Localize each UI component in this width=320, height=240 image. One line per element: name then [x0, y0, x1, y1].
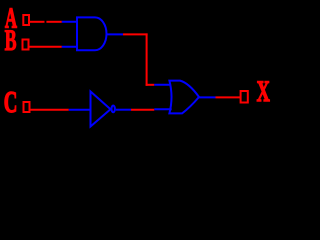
input pin A	[23, 15, 29, 25]
inverter to OR red wire	[131, 109, 154, 111]
inverter U2 triangle	[91, 92, 111, 127]
OR top input blue stub	[154, 84, 171, 86]
AND gate U1	[77, 17, 106, 50]
svg-text:B: B	[5, 25, 17, 58]
wire B blue segment	[62, 46, 78, 48]
wire A blue segment	[62, 21, 78, 23]
OR output blue stub	[199, 96, 216, 98]
OR gate U3	[169, 81, 199, 114]
wire A red segment	[30, 21, 45, 23]
inverter output blue stub	[116, 109, 131, 111]
AND-OR red wire lower horizontal	[146, 84, 155, 86]
input pin C	[24, 102, 30, 112]
output pin X	[241, 91, 248, 103]
AND output red wire horizontal	[123, 33, 148, 35]
wire B red segment	[30, 46, 62, 48]
svg-text:X: X	[257, 76, 270, 108]
wire A red segment after gap	[46, 21, 61, 23]
OR bottom input blue stub	[154, 108, 171, 110]
svg-text:C: C	[4, 86, 18, 120]
AND output blue stub	[107, 33, 124, 35]
OR output red wire to X	[216, 96, 241, 98]
input pin B	[23, 40, 29, 50]
wire C red segment	[31, 109, 69, 111]
inverter bubble	[112, 106, 115, 113]
AND-OR red wire vertical	[146, 33, 148, 85]
wire C blue segment to inverter	[69, 109, 92, 111]
